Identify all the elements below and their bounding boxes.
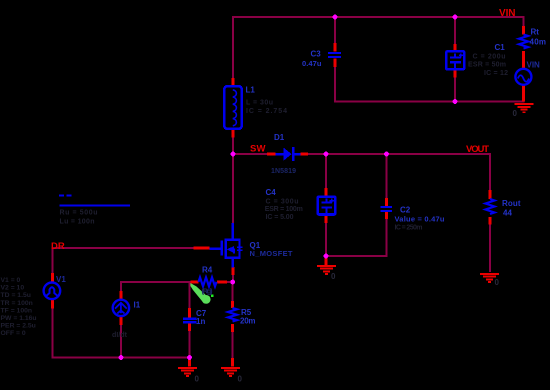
- resistor R4: [199, 277, 217, 286]
- resistor R5: [228, 308, 237, 321]
- current source I1: [113, 300, 129, 316]
- svg-text:V1: V1: [56, 275, 66, 284]
- svg-text:1n: 1n: [196, 317, 205, 326]
- junction dot top rail C3: [333, 15, 338, 20]
- ground below C7: [178, 367, 197, 377]
- svg-text:D1: D1: [274, 133, 285, 142]
- pin stub I1 bottom: [120, 316, 123, 325]
- svg-text:IC = 12: IC = 12: [484, 70, 508, 77]
- junction dot SW node: [231, 152, 236, 157]
- wire R4 right to node: [227, 281, 233, 283]
- svg-text:L = 30u: L = 30u: [246, 100, 273, 107]
- wire input return rail: [334, 101, 525, 103]
- svg-text:VIN: VIN: [499, 8, 516, 19]
- pin stub C7 top: [188, 308, 191, 318]
- wire bottom return rail: [52, 357, 191, 359]
- svg-text:C = 200u: C = 200u: [473, 54, 506, 61]
- svg-text:TR = 100n: TR = 100n: [1, 300, 33, 307]
- svg-text:Value = 0.47u: Value = 0.47u: [395, 215, 445, 224]
- voltage source V1: [44, 283, 61, 300]
- pin stub C4 top: [325, 188, 328, 196]
- wire top rail right corner down to Rt: [523, 16, 525, 26]
- annotation underline long: [60, 205, 131, 207]
- svg-text:ESR = 100m: ESR = 100m: [265, 206, 303, 213]
- pin stub C1 bottom: [454, 71, 457, 78]
- transistor Q1 N-MOSFET: [210, 223, 243, 267]
- svg-text:V2 = 10: V2 = 10: [1, 285, 25, 292]
- capacitor C4 electrolytic: [318, 197, 336, 215]
- svg-text:C4: C4: [266, 188, 277, 197]
- svg-text:C3: C3: [311, 50, 322, 59]
- svg-text:0.47u: 0.47u: [302, 59, 322, 68]
- svg-text:SW: SW: [250, 144, 266, 155]
- svg-text:C1: C1: [495, 43, 506, 52]
- pin stub R5 bottom: [231, 324, 234, 332]
- pin stub Q1 gate: [194, 247, 210, 250]
- junction dot VOUT rail C4: [324, 152, 329, 157]
- wire VOUT rail down to C2: [386, 155, 388, 198]
- pin stub Rout top: [489, 190, 492, 199]
- wire I1 top horizontal to R4 node: [120, 281, 191, 283]
- wire V1 bottom to ground rail: [52, 309, 54, 359]
- pin stub C2 bottom: [385, 212, 388, 219]
- pin stub R4 left: [191, 281, 199, 284]
- svg-text:40m: 40m: [530, 38, 547, 47]
- svg-text:VOUT: VOUT: [466, 144, 489, 155]
- pin stub V1 top: [51, 273, 54, 282]
- capacitor C2: [381, 206, 392, 212]
- svg-text:I1: I1: [134, 300, 141, 309]
- wire C2 bottom down: [386, 219, 388, 257]
- wire top rail VIN: [232, 16, 525, 18]
- pin stub D1 anode: [267, 153, 276, 156]
- wire VOUT corner down to Rout: [489, 153, 491, 190]
- voltage source VIN: [515, 69, 531, 85]
- pin stub C3 bottom: [334, 59, 337, 68]
- svg-text:0: 0: [495, 278, 500, 287]
- wire R5 bottom to ground: [232, 332, 234, 358]
- svg-text:0: 0: [195, 375, 200, 384]
- wire C7 top vertical: [189, 283, 191, 308]
- svg-text:Rout: Rout: [502, 199, 521, 208]
- pin stub VIN source bottom to ground: [522, 86, 525, 102]
- pin stub Rt top: [522, 26, 525, 35]
- svg-text:DR: DR: [51, 241, 65, 252]
- junction dot input return rail C1: [453, 99, 458, 104]
- wire D1 cathode to VOUT corner: [308, 153, 490, 155]
- svg-text:TF = 100n: TF = 100n: [1, 307, 33, 314]
- pin stub L1 top: [232, 78, 235, 86]
- ground node below C4: [317, 265, 336, 275]
- svg-text:TD = 1.5u: TD = 1.5u: [1, 292, 31, 299]
- svg-text:Ru = 500u: Ru = 500u: [60, 209, 98, 216]
- junction dot return rail I1: [119, 355, 124, 360]
- junction dot Q1 source node: [230, 280, 235, 285]
- pin stub C7 bottom: [188, 323, 191, 331]
- svg-text:dI/dt: dI/dt: [112, 332, 128, 339]
- pin stub R5 top: [231, 301, 234, 308]
- wire top rail down to C3: [334, 17, 336, 43]
- svg-text:PW = 1.16u: PW = 1.16u: [1, 315, 37, 322]
- pin stub C1 top: [454, 44, 457, 51]
- svg-text:C2: C2: [400, 205, 411, 214]
- capacitor C3: [328, 52, 341, 58]
- wire I1 top vertical: [120, 282, 122, 291]
- svg-text:IC = 5.00: IC = 5.00: [266, 214, 294, 221]
- pin stub ground below C7: [188, 359, 191, 367]
- pin stub C3 top: [334, 43, 337, 52]
- ground below Rout: [480, 273, 499, 283]
- svg-text:OFF = 0: OFF = 0: [1, 330, 26, 337]
- junction dot return rail C7: [187, 355, 192, 360]
- wire VOUT rail down to C4: [325, 155, 327, 188]
- wire L1 bottom to SW node: [232, 137, 234, 156]
- wire C7 bottom to return rail: [189, 331, 191, 358]
- svg-text:V1 = 0: V1 = 0: [1, 277, 21, 284]
- wire top rail down to C1: [454, 17, 456, 44]
- pin stub Q1 source: [232, 267, 235, 275]
- wire C1 bottom to input return rail: [454, 77, 456, 102]
- diode D1: [276, 147, 301, 161]
- svg-text:1N5819: 1N5819: [271, 168, 296, 175]
- wire ground node horizontal C4 to C2: [325, 255, 388, 257]
- svg-text:ESR = 50m: ESR = 50m: [468, 62, 506, 69]
- resistor Rt: [519, 35, 528, 49]
- svg-text:Rt: Rt: [531, 28, 540, 37]
- capacitor C1 electrolytic: [446, 51, 464, 69]
- pin stub V1 bottom: [51, 300, 54, 309]
- resistor Rout: [486, 199, 495, 214]
- wire left vertical from top rail to L1: [232, 16, 234, 78]
- pin stub R4 right: [217, 281, 227, 284]
- wire SW node to diode D1: [232, 153, 267, 155]
- svg-text:N_MOSFET: N_MOSFET: [250, 249, 293, 258]
- wire C4 bottom to ground node: [325, 223, 327, 257]
- wire I1 bottom to return rail: [120, 325, 122, 358]
- capacitor C7: [183, 318, 197, 324]
- value V1 pulse parameters: [1, 277, 37, 337]
- svg-text:44: 44: [503, 208, 512, 217]
- svg-text:20m: 20m: [240, 316, 256, 325]
- wire Rout bottom to ground: [489, 224, 491, 272]
- wire Q1 source to node: [232, 275, 234, 282]
- probe cursor green arrow: [190, 283, 213, 304]
- svg-text:L1: L1: [246, 86, 256, 95]
- wire DR corner down to V1: [52, 248, 54, 273]
- pin stub L1 bottom: [232, 130, 235, 138]
- pin stub C2 top: [385, 198, 388, 206]
- svg-text:0: 0: [238, 375, 243, 384]
- ground below R5: [221, 367, 240, 377]
- inductor L1: [224, 86, 241, 129]
- svg-text:PER = 2.5u: PER = 2.5u: [1, 323, 36, 330]
- pin stub C4 bottom: [325, 216, 328, 223]
- wire DR net V1 to Q1 gate: [52, 247, 194, 249]
- svg-text:0: 0: [331, 272, 336, 281]
- svg-text:Lu = 100n: Lu = 100n: [60, 218, 95, 225]
- junction dot VOUT rail C2: [384, 152, 389, 157]
- svg-text:IC = 250m: IC = 250m: [395, 225, 423, 232]
- wire SW node down to Q1 drain: [232, 155, 234, 223]
- ground input rail right: [515, 103, 534, 113]
- annotation underline short: [59, 195, 64, 197]
- wire C3 bottom to input return rail: [334, 67, 336, 102]
- svg-text:R4: R4: [202, 266, 213, 275]
- pin stub ground node below C4: [325, 257, 328, 265]
- junction dot ground node below C4: [324, 254, 329, 259]
- svg-text:IC = 2.754: IC = 2.754: [246, 108, 287, 115]
- svg-text:C = 300u: C = 300u: [266, 199, 299, 206]
- pin stub Rout bottom: [489, 217, 492, 225]
- pin stub D1 cathode: [301, 153, 309, 156]
- svg-text:0: 0: [513, 109, 518, 118]
- pin stub Rt bottom to VIN source: [522, 51, 525, 69]
- pin stub I1 top: [120, 291, 123, 300]
- pin stub ground below R5: [231, 358, 234, 367]
- svg-text:VIN: VIN: [527, 61, 541, 70]
- wire node down to R5: [232, 283, 234, 301]
- svg-text:(Rg): (Rg): [202, 287, 214, 296]
- junction dot top rail C1: [453, 15, 458, 20]
